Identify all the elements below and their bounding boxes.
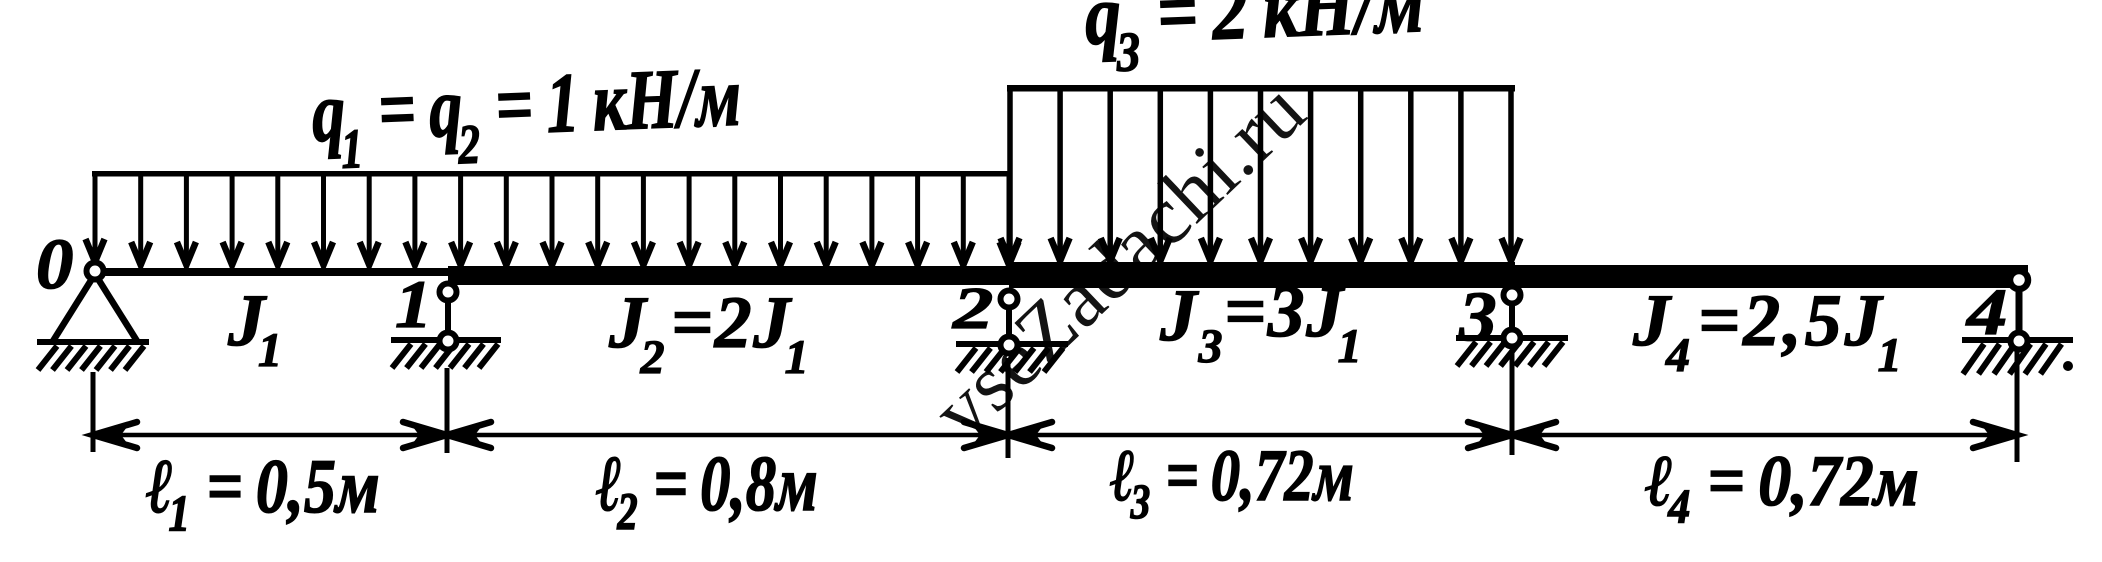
dimension line l2 <box>447 422 1008 448</box>
svg-text:2: 2 <box>952 275 994 341</box>
witness line node 2 <box>1006 358 1011 458</box>
load label q3=2 kN/m <box>1083 0 1426 84</box>
roller support node 1 <box>391 284 501 369</box>
dimension line l3 <box>1008 422 1512 448</box>
beam segment 1-2 (J2) <box>448 266 1011 285</box>
svg-text:J2=2J1: J2=2J1 <box>608 282 810 384</box>
witness line node 4 <box>2015 348 2020 462</box>
dimension line l4 <box>1512 422 2017 448</box>
svg-text:ℓ1 = 0,5м: ℓ1 = 0,5м <box>146 444 380 542</box>
svg-text:1: 1 <box>395 266 432 342</box>
load label q1=q2=1 kN/m <box>310 50 743 182</box>
svg-text:J1: J1 <box>227 280 282 377</box>
roller support node 4 <box>1962 271 2073 374</box>
watermark vseZadachi.ru <box>915 64 1322 457</box>
pinned support node 0 <box>37 263 149 371</box>
dimension label l4=0,72m <box>1645 441 1919 533</box>
distributed load q1=q2 arrows <box>86 174 1019 265</box>
svg-text:J3=3J1: J3=3J1 <box>1159 271 1363 373</box>
svg-text:J4=2,5J1: J4=2,5J1 <box>1632 280 1905 382</box>
distributed load q3 arrows <box>1001 88 1521 261</box>
dimension label l2=0,8m <box>596 440 818 541</box>
distributed load q3 top line <box>1007 85 1515 92</box>
node 4 label <box>1965 276 2008 349</box>
svg-text:ℓ4 = 0,72м: ℓ4 = 0,72м <box>1645 441 1919 533</box>
svg-text:q1 = q2 = 1 кН/м: q1 = q2 = 1 кН/м <box>310 50 743 182</box>
svg-text:0: 0 <box>36 223 73 304</box>
dimension label l1=0,5m <box>146 444 380 542</box>
beam segment 3-4 (J4) <box>1513 265 2028 288</box>
roller support node 3 <box>1456 287 1568 367</box>
roller support node 2 <box>956 291 1068 373</box>
witness line node 0 <box>91 372 96 452</box>
svg-text:4: 4 <box>1965 276 2008 349</box>
distributed load q1=q2 top line <box>92 171 1012 177</box>
dimension line l1 <box>93 422 447 448</box>
svg-text:ℓ2 = 0,8м: ℓ2 = 0,8м <box>596 440 818 541</box>
witness line node 1 <box>445 368 450 453</box>
witness line node 3 <box>1510 350 1515 455</box>
beam segment 0-1 (J1) <box>95 268 452 276</box>
node 1 label <box>395 266 432 342</box>
svg-text:3: 3 <box>1458 277 1497 356</box>
beam segment 2-3 (J3) <box>1009 262 1515 288</box>
svg-text:ℓ3 = 0,72м: ℓ3 = 0,72м <box>1110 435 1354 529</box>
node 3 label <box>1458 277 1497 356</box>
node 0 label <box>36 223 73 304</box>
dimension label l3=0,72m <box>1110 435 1354 529</box>
node 2 label <box>952 275 994 341</box>
